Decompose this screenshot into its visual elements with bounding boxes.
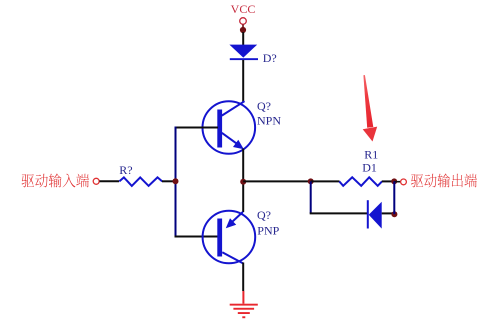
wire output node to R1 <box>243 180 311 182</box>
junction dot output node <box>240 179 246 185</box>
svg-text:R1: R1 <box>364 147 378 161</box>
wire left vertical base bus <box>175 127 177 238</box>
junction dot left of R1 <box>308 178 314 184</box>
svg-text:D1: D1 <box>362 161 377 175</box>
wire stub VCC terminal to dot <box>242 25 244 28</box>
wire NPN base <box>175 127 219 129</box>
ground <box>230 291 258 318</box>
wire to R1 <box>311 180 340 182</box>
junction dot D1 anode <box>391 211 397 217</box>
wire R? to base bus <box>162 180 175 182</box>
diode D? (series from VCC) <box>229 45 258 61</box>
wire input terminal to R? <box>100 180 120 182</box>
net label 驱动输出端 (drive output) <box>411 173 477 187</box>
wire D1 anode to right junction <box>382 212 396 214</box>
wire NPN emitter to PNP emitter (output node) <box>242 149 244 213</box>
svg-text:Q?: Q? <box>257 99 271 113</box>
wire stub to output terminal <box>394 181 400 183</box>
wire PNP collector to ground <box>242 263 244 292</box>
svg-text:Q?: Q? <box>257 208 271 222</box>
output open-circle terminal <box>401 179 407 185</box>
VCC junction dot <box>240 27 246 33</box>
wire PNP base <box>175 236 219 238</box>
svg-text:VCC: VCC <box>231 2 256 16</box>
junction dot right of R1 <box>391 178 397 184</box>
svg-text:PNP: PNP <box>257 223 279 237</box>
resistor R1 <box>339 177 382 186</box>
diode D1 (anti-parallel clamp) <box>367 200 382 228</box>
wire down from left junction (D1 branch) <box>310 181 312 213</box>
svg-text:NPN: NPN <box>257 113 281 127</box>
annotation arrow pointing at R1 <box>363 75 378 142</box>
svg-text:D?: D? <box>263 51 277 65</box>
input open-circle terminal <box>93 178 99 184</box>
transistor Q? NPN <box>203 101 256 154</box>
wire to D1 cathode <box>310 212 367 214</box>
junction dot input/base bus <box>173 178 179 184</box>
wire VCC to diode D? anode <box>242 32 244 45</box>
svg-text:R?: R? <box>119 163 132 177</box>
VCC open-circle terminal <box>240 18 247 25</box>
net label 驱动输入端 (drive input) <box>22 173 90 187</box>
resistor R? <box>119 177 162 186</box>
wire diode cathode to NPN collector <box>242 60 244 102</box>
wire up to output terminal <box>393 181 395 214</box>
wire R1 to output terminal <box>382 180 395 182</box>
transistor Q? PNP <box>203 211 256 264</box>
